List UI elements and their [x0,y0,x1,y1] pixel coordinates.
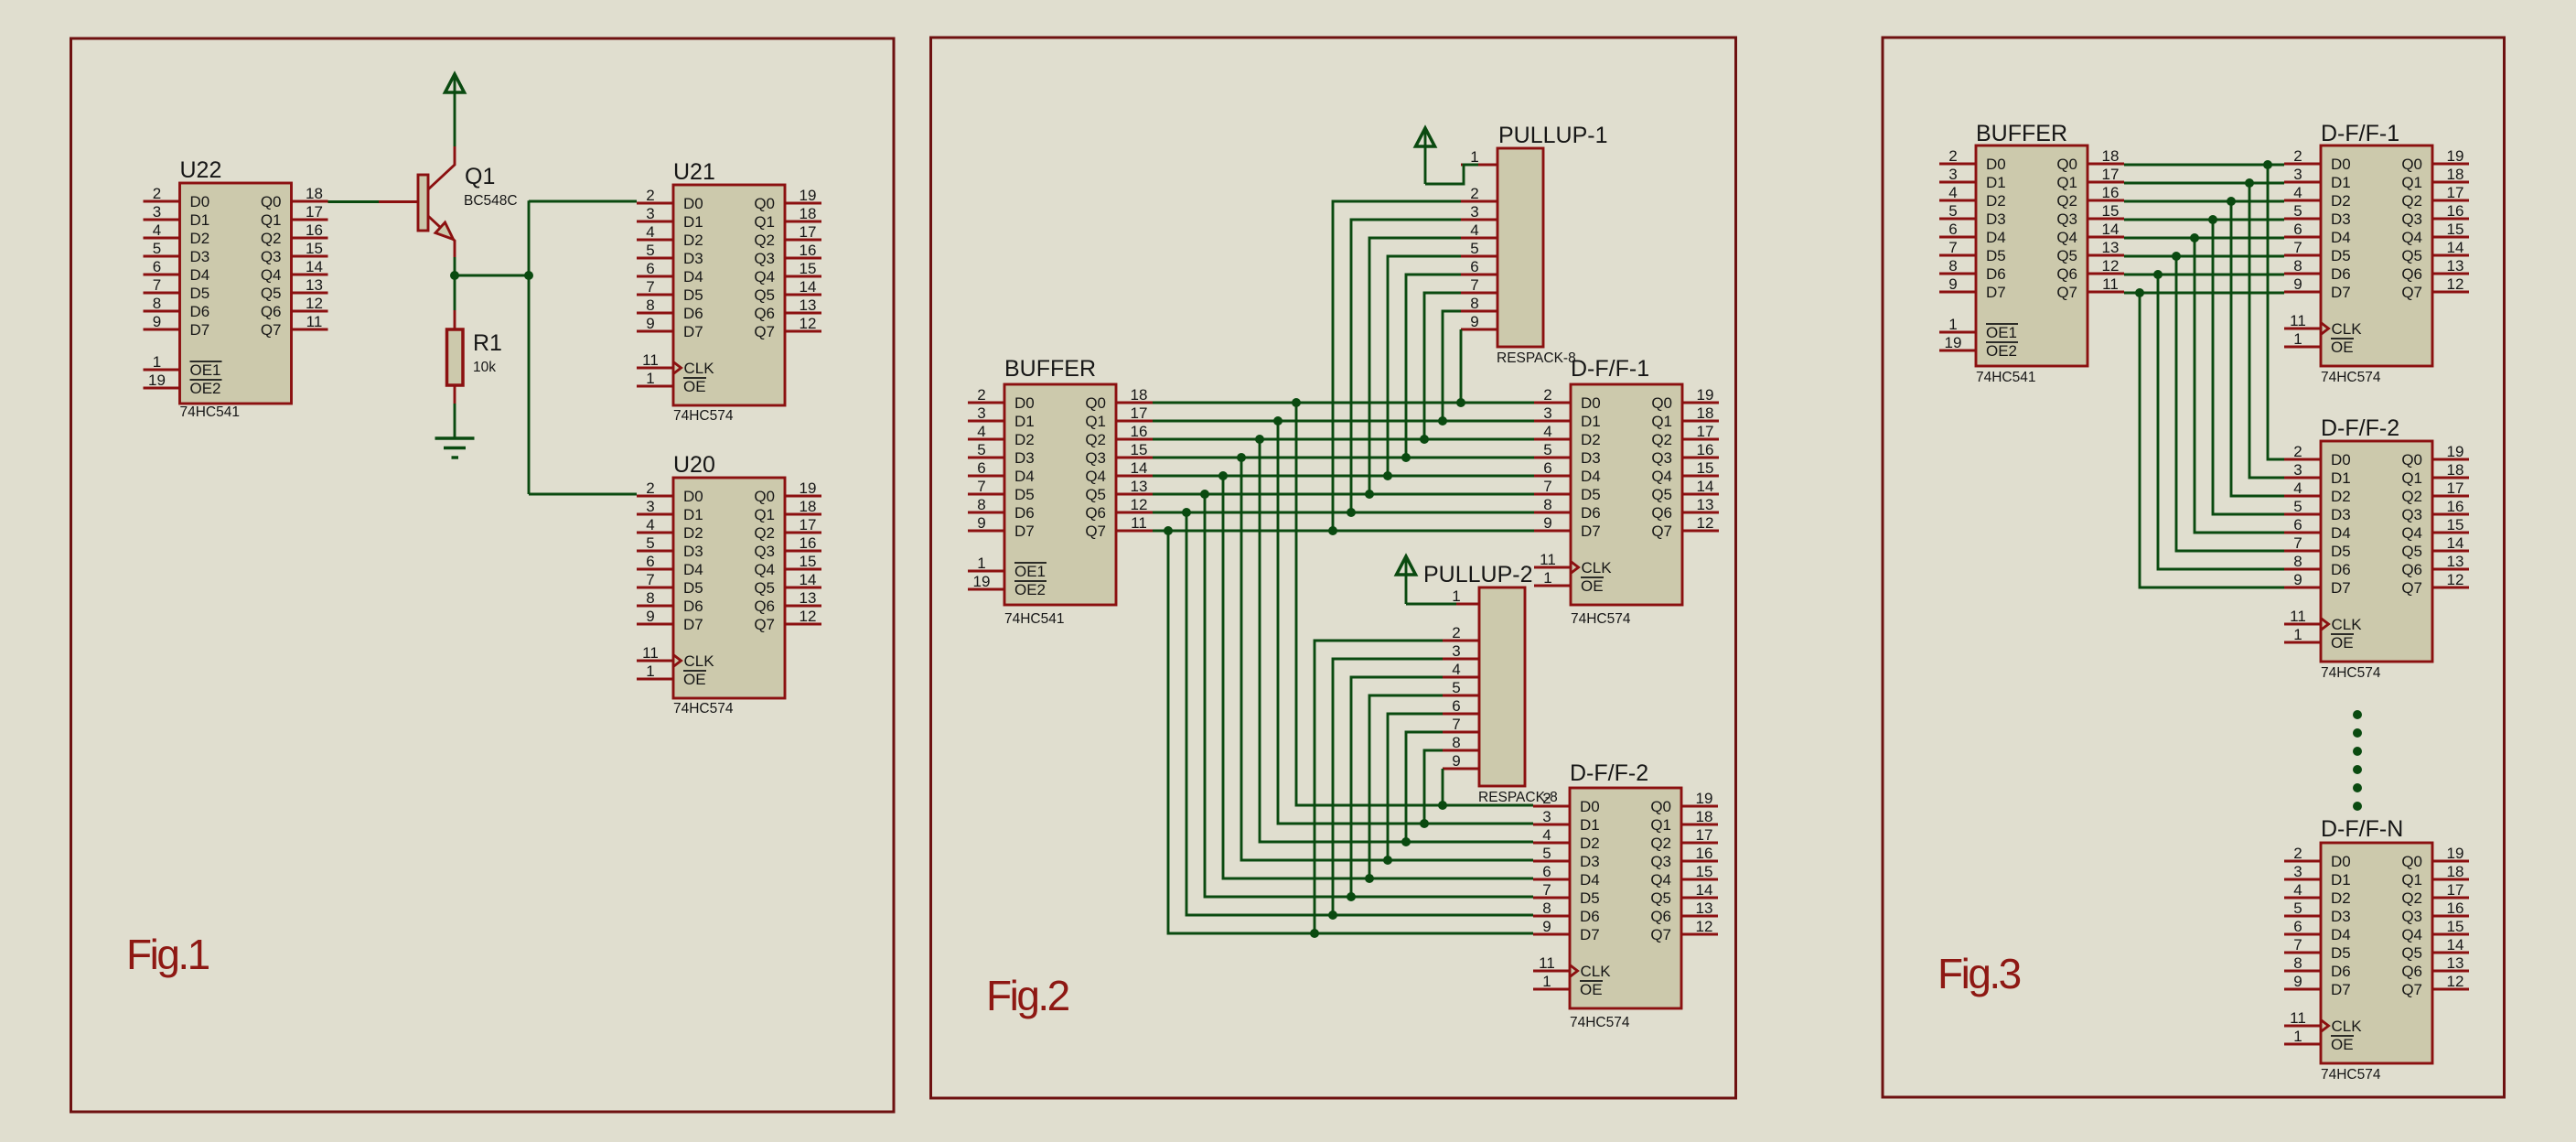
svg-text:15: 15 [2447,516,2464,533]
svg-text:9: 9 [977,514,985,532]
svg-text:D7: D7 [683,616,703,633]
svg-text:14: 14 [2447,936,2464,953]
svg-text:D-F/F-2: D-F/F-2 [2321,415,2399,441]
svg-text:2: 2 [646,187,654,204]
wire bus row Q1/D1 (Fig.3) [2124,182,2284,185]
svg-text:3: 3 [646,498,654,515]
Fig.2 frame [931,38,1736,1098]
D-F/F-N pin numbers [2290,845,2463,1045]
svg-text:D3: D3 [1581,449,1601,467]
svg-text:14: 14 [1696,881,1713,899]
svg-text:2: 2 [1948,147,1957,165]
svg-text:D2: D2 [683,232,703,249]
wire PULLUP-1 pin 8 to bus row [1443,311,1461,421]
svg-text:1: 1 [2293,1028,2302,1045]
svg-text:Q1: Q1 [2401,871,2422,889]
svg-text:8: 8 [1452,734,1460,751]
svg-text:D2: D2 [1581,431,1601,448]
wire PULLUP-2 pin 2 to bus row [1315,641,1443,933]
svg-text:4: 4 [1452,661,1460,678]
svg-text:Q7: Q7 [2401,981,2422,998]
svg-text:2: 2 [153,185,161,202]
svg-text:9: 9 [1452,752,1460,770]
svg-text:9: 9 [646,608,654,625]
svg-text:14: 14 [1131,459,1148,477]
svg-text:D1: D1 [683,213,703,231]
junction at Q1 emitter / R1 [450,271,459,280]
svg-text:4: 4 [646,223,654,241]
svg-text:1: 1 [1542,973,1551,990]
svg-text:74HC574: 74HC574 [2321,1067,2381,1083]
wire bus row Q4/D4 (Fig.3) [2124,237,2284,240]
svg-text:12: 12 [800,608,817,625]
junction Q7 drop [1164,526,1173,535]
svg-text:4: 4 [153,221,161,239]
svg-text:Q6: Q6 [754,305,775,322]
svg-text:D0: D0 [1581,394,1601,412]
D-F/F-2 right pin stubs [1681,806,1718,934]
U22 body [180,183,292,404]
svg-text:D1: D1 [1581,413,1601,430]
svg-text:2: 2 [646,479,654,497]
svg-text:D3: D3 [2331,210,2351,228]
svg-text:Q4: Q4 [2401,524,2422,542]
svg-text:9: 9 [2293,571,2302,588]
svg-text:D6: D6 [1581,504,1601,522]
svg-text:2: 2 [2293,845,2302,862]
svg-text:5: 5 [1542,845,1551,862]
svg-text:11: 11 [2102,275,2119,293]
ground symbol [435,438,475,458]
svg-text:6: 6 [2293,221,2302,238]
junction Q0 drop [1292,398,1301,407]
D-F/F-1 left pin stubs [2284,164,2321,347]
svg-text:D7: D7 [1014,523,1035,540]
U21 body [673,185,785,405]
svg-text:6: 6 [1542,863,1551,880]
junction Q4 drop (Fig.3) [2190,233,2199,242]
svg-text:4: 4 [1948,184,1957,201]
wire Q4 drop to D-F/F-2.D4 (Fig.3) [2195,238,2284,533]
junction PULLUP-2 pin 7 [1401,837,1411,846]
power symbol VCC (PULLUP-2) (VCC arrow) [1397,556,1416,604]
svg-text:D0: D0 [2331,451,2351,469]
junction PULLUP-1 pin 7 [1420,435,1429,444]
wire Q6 drop to D-F/F-2.D6 [1186,512,1533,915]
Fig.1 frame [71,38,895,1112]
svg-text:7: 7 [1542,881,1551,899]
svg-text:Q4: Q4 [754,561,775,578]
svg-text:Q5: Q5 [2056,247,2077,264]
svg-text:6: 6 [2293,516,2302,533]
svg-text:Q0: Q0 [754,195,775,212]
svg-text:Q0: Q0 [1651,394,1672,412]
svg-text:4: 4 [646,516,654,533]
svg-text:17: 17 [306,203,323,221]
svg-text:19: 19 [148,372,166,389]
svg-text:6: 6 [1948,221,1957,238]
wire bus row Q3/D3 (Fig.2) [1153,457,1534,459]
svg-text:14: 14 [1697,478,1714,495]
svg-text:15: 15 [800,260,817,277]
wire bus row Q6/D6 (Fig.2) [1153,512,1534,514]
svg-text:18: 18 [1131,386,1148,404]
IC BUFFER (74HC541) [1939,145,2124,366]
svg-text:D5: D5 [1014,486,1035,503]
junction PULLUP-1 pin 5 [1383,471,1392,480]
svg-text:Q4: Q4 [1085,468,1106,485]
U21 pin numbers [642,187,816,387]
svg-text:D4: D4 [1986,229,2006,246]
svg-text:Q2: Q2 [261,230,282,247]
junction Q3 drop [1237,453,1246,462]
svg-text:D4: D4 [683,268,703,285]
svg-text:RESPACK-8: RESPACK-8 [1497,350,1576,366]
wire branch to U21.D0 [529,200,637,203]
svg-text:Q4: Q4 [2401,926,2422,943]
svg-text:D6: D6 [683,598,703,615]
svg-text:Q2: Q2 [2056,192,2077,210]
svg-text:D7: D7 [1986,284,2006,301]
IC D-F/F-2 (74HC574) [1533,788,1718,1008]
svg-text:Q0: Q0 [754,488,775,505]
svg-text:17: 17 [2447,184,2464,201]
svg-text:17: 17 [2447,479,2464,497]
svg-text:12: 12 [1697,514,1714,532]
svg-text:Q0: Q0 [1650,798,1671,815]
svg-text:D7: D7 [190,321,210,339]
svg-text:12: 12 [2447,571,2464,588]
svg-text:Q0: Q0 [261,193,282,210]
svg-text:6: 6 [1470,258,1478,275]
svg-text:5: 5 [1948,202,1957,220]
svg-text:8: 8 [1470,295,1478,312]
svg-text:D-F/F-1: D-F/F-1 [2321,121,2399,146]
svg-text:Q7: Q7 [261,321,282,339]
wire PULLUP-1 pin 3 to bus row [1351,220,1461,512]
svg-text:18: 18 [800,498,817,515]
svg-text:9: 9 [1470,313,1478,330]
svg-text:9: 9 [1542,918,1551,935]
svg-text:16: 16 [2102,184,2120,201]
svg-text:11: 11 [2290,312,2306,329]
svg-text:6: 6 [646,553,654,570]
svg-text:Q7: Q7 [1651,523,1672,540]
svg-text:4: 4 [1470,221,1478,239]
svg-text:OE: OE [2331,339,2354,356]
wire Q1 drop to D-F/F-2.D1 [1278,421,1533,824]
svg-text:D3: D3 [1580,853,1600,870]
junction Q1 drop [1273,416,1283,426]
svg-text:19: 19 [1945,334,1962,351]
svg-text:1: 1 [1452,587,1460,605]
svg-text:15: 15 [800,553,817,570]
svg-text:19: 19 [973,573,991,590]
wire bus row Q4/D4 (Fig.2) [1153,475,1534,478]
svg-text:D3: D3 [190,248,210,265]
svg-text:10k: 10k [473,360,496,375]
svg-text:8: 8 [1948,257,1957,275]
svg-text:OE: OE [683,378,706,395]
svg-text:Q6: Q6 [1650,908,1671,925]
svg-text:2: 2 [2293,443,2302,460]
svg-text:7: 7 [2293,239,2302,256]
D-F/F-2 pin names [1570,798,1671,998]
wire PULLUP-2 pin 4 to bus row [1351,677,1443,897]
svg-text:Q2: Q2 [1650,835,1671,852]
D-F/F-2 left pin stubs [1533,806,1570,989]
junction Q6 drop [1182,508,1191,517]
svg-text:7: 7 [1452,716,1460,733]
svg-text:3: 3 [646,205,654,222]
svg-text:3: 3 [1470,203,1478,221]
junction PULLUP-1 pin 4 [1365,490,1374,499]
wire VCC to PULLUP-1 pin 1 [1425,165,1478,184]
svg-text:CLK: CLK [684,360,715,377]
svg-text:11: 11 [306,313,323,330]
svg-text:Q2: Q2 [1651,431,1672,448]
svg-text:D7: D7 [1580,926,1600,943]
svg-text:Q3: Q3 [2401,210,2422,228]
wire bus row Q2/D2 (Fig.2) [1153,438,1534,441]
svg-text:D5: D5 [683,286,703,304]
svg-text:Q7: Q7 [1650,926,1671,943]
svg-text:18: 18 [2102,147,2120,165]
svg-text:Q3: Q3 [1651,449,1672,467]
svg-text:D-F/F-1: D-F/F-1 [1571,356,1649,382]
svg-text:OE: OE [2331,634,2354,652]
svg-text:BC548C: BC548C [464,193,518,209]
svg-text:OE: OE [1580,981,1603,998]
wire Q5 drop to D-F/F-2.D5 (Fig.3) [2176,256,2284,551]
svg-text:16: 16 [2447,900,2464,917]
svg-text:18: 18 [1696,808,1713,825]
transistor Q1 (BC548C NPN) [379,146,455,257]
U20 left pin stubs [637,496,673,679]
wire bus row Q1/D1 (Fig.2) [1153,420,1534,423]
svg-text:Q5: Q5 [2401,247,2422,264]
svg-text:19: 19 [1696,790,1713,807]
svg-text:2: 2 [1452,624,1460,641]
svg-text:R1: R1 [473,330,502,356]
wire bus row Q7/D7 (Fig.3) [2124,292,2284,295]
svg-text:12: 12 [800,315,817,332]
svg-text:Q6: Q6 [1651,504,1672,522]
BUFFER body [1004,384,1116,605]
svg-text:13: 13 [2447,553,2464,570]
junction Q3 drop (Fig.3) [2208,215,2217,224]
svg-text:19: 19 [2447,443,2464,460]
D-F/F-1 body [1571,384,1682,605]
svg-text:CLK: CLK [2332,1018,2363,1035]
svg-text:16: 16 [2447,202,2464,220]
svg-text:74HC541: 74HC541 [1976,370,2036,385]
U21 right pin stubs [785,203,821,331]
svg-text:15: 15 [2447,221,2464,238]
svg-text:Q3: Q3 [754,250,775,267]
svg-text:D2: D2 [1580,835,1600,852]
svg-text:5: 5 [2293,498,2302,515]
resistor pack PULLUP-1 (RESPACK-8) [1461,148,1543,347]
svg-text:16: 16 [306,221,323,239]
svg-text:D3: D3 [683,250,703,267]
BUFFER body [1976,145,2088,366]
svg-text:D3: D3 [683,543,703,560]
svg-text:8: 8 [977,496,985,513]
wire bus row Q6/D6 (Fig.3) [2124,274,2284,276]
svg-text:PULLUP-1: PULLUP-1 [1498,123,1608,148]
svg-text:Q4: Q4 [1650,871,1671,889]
svg-text:13: 13 [306,276,323,294]
PULLUP-1 pin stubs [1461,165,1497,329]
Fig.3 frame [1883,38,2505,1097]
svg-text:13: 13 [1697,496,1714,513]
svg-text:8: 8 [646,589,654,607]
svg-text:BUFFER: BUFFER [1004,356,1096,382]
svg-text:D2: D2 [683,524,703,542]
junction PULLUP-1 pin 6 [1401,453,1411,462]
svg-text:D0: D0 [190,193,210,210]
svg-text:17: 17 [800,516,817,533]
svg-text:14: 14 [800,278,817,296]
resistor R1 [447,310,464,404]
svg-text:Q4: Q4 [261,266,282,284]
D-F/F-2 pin numbers [2290,443,2463,643]
wire PULLUP-1 pin 7 to bus row [1424,293,1461,439]
D-F/F-2 left pin stubs [2284,459,2321,642]
svg-text:D0: D0 [1014,394,1035,412]
svg-text:D2: D2 [2331,192,2351,210]
svg-text:14: 14 [306,258,323,275]
ellipsis dots (repeated stages) [2353,710,2362,811]
svg-text:D3: D3 [1986,210,2006,228]
svg-text:D7: D7 [2331,981,2351,998]
svg-text:D6: D6 [2331,963,2351,980]
svg-text:1: 1 [1948,316,1957,333]
svg-text:19: 19 [800,187,817,204]
svg-text:3: 3 [2293,166,2302,183]
svg-text:3: 3 [1543,404,1551,422]
svg-text:D5: D5 [2331,944,2351,962]
svg-text:D2: D2 [1014,431,1035,448]
power symbol VCC (Fig.1) (VCC arrow) [445,74,465,146]
D-F/F-1 right pin stubs [2432,164,2469,292]
svg-text:Q2: Q2 [1085,431,1106,448]
junction Q1 drop (Fig.3) [2245,178,2254,188]
svg-text:Q0: Q0 [2056,156,2077,173]
svg-text:D0: D0 [1580,798,1600,815]
junction PULLUP-2 pin 3 [1328,910,1337,920]
svg-text:OE2: OE2 [1014,581,1046,598]
svg-text:14: 14 [800,571,817,588]
svg-text:D5: D5 [1580,889,1600,907]
svg-text:Q1: Q1 [1651,413,1672,430]
wire Q1 emitter to R1 [454,257,456,310]
svg-text:Q1: Q1 [1650,816,1671,834]
svg-text:12: 12 [2102,257,2120,275]
svg-text:D6: D6 [2331,561,2351,578]
wire Q1 drop to D-F/F-2.D1 (Fig.3) [2249,183,2284,478]
BUFFER pin numbers [1945,147,2120,351]
resistor pack PULLUP-2 (RESPACK-8) [1443,587,1525,786]
svg-text:Q0: Q0 [2401,156,2422,173]
svg-text:7: 7 [1948,239,1957,256]
svg-text:Q6: Q6 [1085,504,1106,522]
BUFFER pin numbers [973,386,1148,590]
svg-text:17: 17 [1696,826,1713,844]
svg-text:Q6: Q6 [2056,265,2077,283]
svg-text:Q7: Q7 [2401,579,2422,597]
svg-text:Q3: Q3 [2401,908,2422,925]
svg-text:U22: U22 [180,157,222,183]
svg-text:4: 4 [1543,423,1551,440]
svg-text:2: 2 [977,386,985,404]
svg-text:1: 1 [646,370,654,387]
IC U20 (74HC574) [637,478,821,698]
BUFFER right pin stubs [2088,164,2124,292]
svg-text:8: 8 [2293,954,2302,972]
svg-text:OE1: OE1 [1014,563,1046,580]
svg-text:8: 8 [153,295,161,312]
wire bus row Q5/D5 (Fig.2) [1153,493,1534,496]
svg-text:9: 9 [153,313,161,330]
wire PULLUP-1 pin 5 to bus row [1388,256,1461,476]
svg-text:Q5: Q5 [261,285,282,302]
svg-text:7: 7 [2293,936,2302,953]
svg-text:D5: D5 [1986,247,2006,264]
svg-text:3: 3 [153,203,161,221]
svg-text:18: 18 [1697,404,1714,422]
junction PULLUP-2 pin 4 [1347,892,1356,901]
junction PULLUP-1 pin 3 [1347,508,1356,517]
svg-text:D7: D7 [2331,579,2351,597]
junction Q0 drop (Fig.3) [2263,160,2272,169]
svg-text:D6: D6 [2331,265,2351,283]
svg-text:Fig.2: Fig.2 [986,972,1069,1019]
PULLUP-2 pin numbers [1452,587,1460,770]
svg-text:D5: D5 [190,285,210,302]
wire bus row Q0/D0 (Fig.2) [1153,402,1534,404]
svg-text:3: 3 [2293,461,2302,479]
wire PULLUP-2 pin 6 to bus row [1388,714,1443,860]
U20 pin numbers [642,479,816,680]
svg-text:9: 9 [646,315,654,332]
wire PULLUP-2 pin 7 to bus row [1406,732,1443,842]
D-F/F-2 right pin stubs [2432,459,2469,587]
PULLUP-2 body [1479,587,1525,786]
svg-text:18: 18 [306,185,323,202]
svg-text:17: 17 [1131,404,1148,422]
BUFFER left pin stubs [968,403,1004,589]
U21 pin names [673,195,775,395]
junction PULLUP-1 pin 8 [1438,416,1447,426]
svg-text:74HC541: 74HC541 [180,404,241,420]
D-F/F-N pin names [2321,853,2422,1053]
svg-text:17: 17 [2102,166,2120,183]
svg-text:D2: D2 [1986,192,2006,210]
svg-text:OE: OE [683,671,706,688]
IC U21 (74HC574) [637,185,821,405]
svg-text:7: 7 [153,276,161,294]
svg-text:9: 9 [1948,275,1957,293]
svg-text:5: 5 [153,240,161,257]
U20 pin names [673,488,775,688]
svg-text:16: 16 [1696,845,1713,862]
junction PULLUP-1 pin 9 [1456,398,1465,407]
PULLUP-1 body [1497,148,1543,347]
junction PULLUP-2 pin 6 [1383,856,1392,865]
IC D-F/F-1 (74HC574) [2284,145,2469,366]
